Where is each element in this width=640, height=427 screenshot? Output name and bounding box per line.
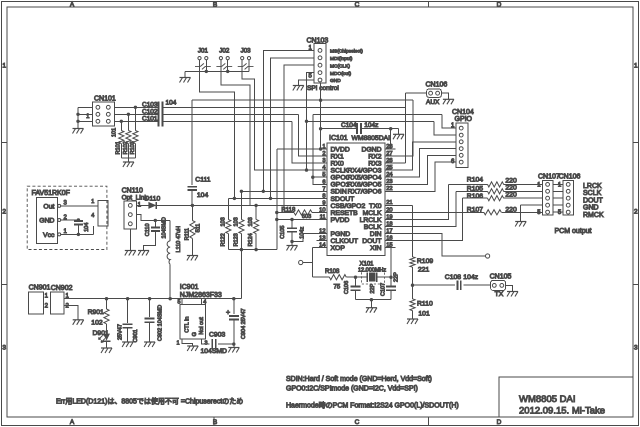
- svg-text:3: 3: [322, 158, 325, 164]
- svg-text:MS(Chipselect): MS(Chipselect): [330, 49, 363, 55]
- capacitor C105: [291, 220, 293, 229]
- svg-text:RX2: RX2: [368, 153, 381, 160]
- wire module Vcc: [61, 233, 94, 235]
- ground R111: [187, 255, 198, 257]
- svg-text:Vcc: Vcc: [43, 232, 55, 239]
- svg-text:28: 28: [386, 144, 392, 150]
- module FAV51RK0F dashed enclosure: [27, 186, 107, 249]
- svg-text:22: 22: [386, 186, 392, 192]
- svg-text:R123: R123: [233, 233, 239, 246]
- frame row ticks left: [2, 141, 8, 143]
- wire 5V input rail: [64, 298, 241, 300]
- ground CN105: [507, 291, 518, 293]
- svg-text:RX4/GPO3: RX4/GPO3: [348, 168, 382, 175]
- svg-text:RX0: RX0: [331, 161, 344, 168]
- svg-text:2: 2: [322, 151, 325, 157]
- svg-text:CTL in: CTL in: [184, 317, 190, 333]
- capacitor C904: [233, 299, 235, 314]
- svg-text:20: 20: [386, 207, 392, 213]
- svg-text:5: 5: [322, 172, 325, 178]
- svg-text:A: A: [70, 2, 75, 9]
- svg-text:25: 25: [386, 165, 392, 171]
- wire RX4/GPO3 pin25 to CN104 pin3: [396, 142, 457, 170]
- wire J01 to SDOUT bus: [200, 66, 235, 198]
- svg-text:3: 3: [634, 345, 638, 352]
- resistor R118: [277, 212, 294, 214]
- svg-text:C: C: [355, 2, 360, 9]
- wire RX6/GPO5 pin23 to CN104 pin5: [396, 155, 457, 184]
- svg-text:RX6/GPO5: RX6/GPO5: [348, 182, 382, 189]
- capacitor C106: [355, 277, 357, 286]
- wire 3.3V pull-up rail: [228, 249, 276, 251]
- ground C902: [144, 341, 155, 343]
- svg-text:R104: R104: [467, 177, 483, 184]
- svg-text:103: 103: [220, 217, 226, 226]
- svg-text:MCLK: MCLK: [363, 210, 382, 217]
- wire crystal ground rail: [356, 299, 392, 301]
- wire BCLK pin18 to R105: [396, 191, 456, 226]
- wire PVDD row: [277, 219, 317, 221]
- svg-text:15: 15: [386, 243, 392, 249]
- svg-text:C111: C111: [195, 177, 210, 184]
- svg-text:12.000MHz: 12.000MHz: [358, 267, 386, 273]
- svg-text:C107: C107: [380, 283, 386, 296]
- svg-text:C101: C101: [142, 116, 158, 123]
- svg-text:G: G: [192, 332, 198, 336]
- resistor R108: [313, 276, 330, 278]
- svg-text:25V47: 25V47: [118, 324, 124, 340]
- svg-text:LRCK: LRCK: [583, 183, 602, 190]
- ground IC901: [187, 345, 198, 347]
- svg-text:4: 4: [203, 299, 206, 305]
- wire CN103 pin4 to SCLK pin4: [307, 73, 317, 171]
- svg-text:7: 7: [322, 186, 325, 192]
- svg-text:21: 21: [386, 200, 392, 206]
- svg-text:FAV51RK0F: FAV51RK0F: [32, 190, 70, 197]
- ground CN103: [293, 85, 304, 87]
- svg-text:C: C: [355, 419, 360, 426]
- wire IC901 pin5 stub: [181, 299, 183, 305]
- svg-text:RESETB: RESETB: [331, 210, 359, 217]
- svg-text:D110: D110: [145, 196, 161, 203]
- svg-text:24: 24: [386, 172, 393, 178]
- svg-text:75: 75: [334, 285, 341, 291]
- svg-text:IC901: IC901: [180, 284, 199, 291]
- svg-text:104SMD: 104SMD: [161, 217, 167, 238]
- capacitor C902: [149, 299, 151, 317]
- wire CN110 pin2 row: [136, 215, 170, 221]
- module FAV51RK0F body: [36, 198, 57, 244]
- ground jumper rail: [180, 77, 191, 79]
- wire LRCLK pin19 to R104: [396, 184, 449, 219]
- wire CSB rail: [192, 204, 316, 206]
- svg-text:GND: GND: [330, 78, 341, 84]
- svg-text:6: 6: [322, 179, 325, 185]
- ground PCM output: [515, 221, 526, 223]
- svg-text:R124: R124: [248, 233, 254, 246]
- capacitor C110: [154, 220, 156, 226]
- svg-text:GPIO: GPIO: [455, 116, 473, 123]
- svg-text:19: 19: [386, 214, 392, 220]
- svg-text:220: 220: [505, 192, 517, 199]
- svg-text:MDI(input): MDI(input): [330, 56, 353, 62]
- svg-text:DOUT: DOUT: [362, 238, 381, 245]
- resistor R102: [127, 114, 129, 130]
- svg-text:Err用LED(D121)は、8805では使用不可 =Chi: Err用LED(D121)は、8805では使用不可 =Chipuserectのた…: [56, 397, 243, 406]
- svg-text:2: 2: [634, 209, 638, 216]
- svg-text:18: 18: [386, 221, 392, 227]
- svg-text:B: B: [213, 419, 217, 426]
- test point node XOP: [299, 260, 303, 264]
- svg-text:220: 220: [505, 178, 517, 185]
- wire DVDD riser to pin1: [320, 83, 322, 149]
- svg-text:8: 8: [322, 193, 325, 199]
- ground C903: [228, 347, 239, 349]
- svg-text:A: A: [70, 419, 75, 426]
- wire GPO bus rail to CN104 pin1: [313, 113, 442, 115]
- svg-text:RX1: RX1: [331, 153, 344, 160]
- svg-text:4: 4: [91, 213, 94, 219]
- svg-text:R109: R109: [417, 258, 433, 265]
- ground CN106 AUX: [443, 98, 454, 100]
- svg-text:C105: C105: [280, 226, 286, 239]
- svg-text:RX7/GPO6: RX7/GPO6: [348, 189, 382, 196]
- svg-text:C903: C903: [209, 332, 225, 339]
- svg-text:10: 10: [319, 207, 325, 213]
- svg-text:GND: GND: [583, 205, 599, 212]
- svg-text:16: 16: [386, 235, 392, 241]
- wire J03 to SCLK pin4: [242, 66, 316, 170]
- svg-text:101: 101: [112, 128, 118, 137]
- svg-text:R103: R103: [130, 141, 136, 154]
- svg-text:R122: R122: [220, 233, 226, 246]
- svg-text:J01: J01: [198, 47, 209, 54]
- svg-text:C104: C104: [341, 122, 357, 129]
- svg-text:R901: R901: [88, 309, 104, 316]
- resistor R111: [191, 205, 193, 220]
- svg-text:9: 9: [322, 200, 325, 206]
- svg-text:C102: C102: [142, 108, 158, 115]
- wire RX1 rail (C102 row): [162, 113, 298, 115]
- svg-text:103: 103: [233, 217, 239, 226]
- wire XOP to R108: [312, 263, 314, 278]
- svg-text:J02: J02: [219, 47, 230, 54]
- svg-text:Noi out: Noi out: [199, 317, 205, 335]
- wire DVDD rail: [192, 99, 413, 101]
- svg-text:PGND: PGND: [331, 231, 351, 238]
- svg-text:SPI control: SPI control: [307, 85, 339, 92]
- wire PGND pin12 to ground node: [292, 234, 317, 242]
- svg-text:R106: R106: [467, 193, 483, 200]
- svg-text:XOP: XOP: [331, 245, 346, 252]
- resistor R103: [134, 107, 136, 130]
- svg-text:RX3: RX3: [368, 161, 381, 168]
- svg-text:MDO(out): MDO(out): [330, 71, 351, 77]
- svg-text:D: D: [497, 2, 502, 9]
- wire RX7/GPO6 pin22 to CN104 pin6: [396, 162, 457, 191]
- svg-text:R110: R110: [417, 300, 433, 307]
- svg-text:R111: R111: [184, 228, 190, 240]
- svg-text:R102: R102: [123, 141, 129, 154]
- svg-text:D: D: [497, 419, 502, 426]
- resistor R109: [410, 257, 415, 267]
- svg-text:CN106: CN106: [559, 174, 581, 181]
- ground C104/DGND: [393, 133, 404, 135]
- svg-text:DGND: DGND: [361, 146, 381, 153]
- wire module GND: [61, 219, 79, 221]
- svg-text:C110: C110: [145, 223, 151, 236]
- svg-text:C901: C901: [133, 329, 139, 342]
- wire CN105 to ground: [506, 285, 513, 291]
- svg-text:511: 511: [196, 224, 202, 233]
- svg-text:2: 2: [2, 209, 6, 216]
- resistor R101: [120, 121, 122, 130]
- svg-text:104SMD: 104SMD: [201, 348, 228, 355]
- svg-text:CN106: CN106: [426, 81, 448, 88]
- svg-text:WM8805 DAI: WM8805 DAI: [519, 394, 576, 405]
- ground R110: [407, 318, 418, 320]
- svg-text:13: 13: [319, 236, 325, 242]
- wire SCLK bus rail to CN104 pin2: [307, 120, 435, 122]
- svg-text:Out: Out: [43, 203, 54, 210]
- wire GPO0 pin5 stub: [313, 176, 317, 178]
- svg-text:C904 25V47: C904 25V47: [241, 308, 247, 339]
- ground CN110: [125, 250, 136, 252]
- wire module Out: [61, 205, 98, 207]
- svg-text:11: 11: [320, 215, 326, 221]
- wire XIN pin15 to crystal: [390, 248, 392, 278]
- wire riser GPO1/GPO0: [313, 114, 317, 184]
- svg-text:1: 1: [91, 199, 94, 205]
- svg-text:220: 220: [505, 185, 517, 192]
- svg-text:1: 1: [634, 63, 638, 70]
- svg-text:GPO0:I2C/SPImode (GND=I2C, Vdd: GPO0:I2C/SPImode (GND=I2C, Vdd=SPI): [286, 386, 418, 393]
- svg-text:SDIN: SDIN: [331, 189, 347, 196]
- wire CN101 left leads: [78, 106, 93, 108]
- svg-text:R108: R108: [325, 269, 340, 275]
- svg-text:NJM2863F33: NJM2863F33: [180, 292, 222, 299]
- svg-text:1: 1: [322, 144, 325, 150]
- module output connector: [98, 200, 108, 226]
- svg-text:TX: TX: [495, 291, 504, 298]
- svg-text:103: 103: [248, 217, 254, 226]
- svg-text:22P: 22P: [393, 272, 399, 282]
- wire CN902 pin2 to ground: [64, 305, 78, 319]
- resistor R123: [240, 191, 242, 219]
- svg-text:101: 101: [418, 310, 430, 317]
- frame column ticks top: [213, 2, 215, 8]
- ground D901: [101, 347, 112, 349]
- svg-text:221: 221: [418, 266, 430, 273]
- svg-text:220: 220: [505, 206, 517, 213]
- wire CN104 pin2 feed: [434, 121, 456, 135]
- svg-text:LRCLK: LRCLK: [360, 217, 382, 224]
- resistor R110: [412, 285, 414, 299]
- svg-text:104: 104: [84, 223, 90, 232]
- wire TX0 pin21 to R109: [396, 204, 413, 206]
- svg-text:PCM output: PCM output: [555, 228, 592, 235]
- svg-text:C106: C106: [344, 281, 350, 294]
- svg-text:IC101: IC101: [329, 135, 348, 142]
- wire CN107 GND row to ground: [521, 204, 543, 206]
- svg-text:104: 104: [166, 99, 177, 106]
- wire RX3 riser / AUX tap: [404, 93, 406, 163]
- capacitor C107: [390, 277, 392, 286]
- svg-text:R118: R118: [281, 207, 296, 213]
- wire CN103 pin3 to RESETB net: [284, 65, 314, 212]
- svg-text:DVDD: DVDD: [331, 146, 350, 153]
- capacitor module 104: [77, 219, 79, 222]
- svg-text:PVDD: PVDD: [331, 217, 350, 224]
- wire RX5/GPO4 pin24 to CN104 pin4: [396, 149, 457, 178]
- wire J02 to CSB bus: [221, 66, 250, 205]
- svg-text:1: 1: [2, 63, 6, 70]
- test point node DIN: [486, 254, 490, 258]
- svg-text:WM8805DAI: WM8805DAI: [352, 135, 391, 142]
- svg-text:C108: C108: [445, 274, 461, 281]
- svg-text:+: +: [226, 309, 230, 316]
- wire CN106 to ground: [441, 93, 448, 99]
- ground C110: [138, 250, 149, 252]
- inductor L110: [169, 220, 171, 241]
- svg-text:5: 5: [177, 299, 180, 305]
- svg-text:CN105: CN105: [490, 274, 512, 281]
- ground C105: [287, 245, 298, 247]
- wire IC901 pin4 stub: [201, 299, 203, 305]
- frame column ticks bottom: [213, 417, 215, 426]
- wire CN107-CN106 row links: [553, 183, 563, 185]
- ground CN902: [73, 319, 84, 321]
- capacitor C901: [127, 299, 129, 323]
- wire CN101 right rows to caps: [115, 106, 158, 108]
- title block: [499, 377, 633, 417]
- svg-text:CN110: CN110: [122, 187, 143, 194]
- wire RX0 rail (C101 row): [162, 120, 291, 122]
- ground R101-R103: [123, 161, 134, 163]
- svg-text:B: B: [213, 2, 217, 9]
- wire RX2 riser from DVDD rail: [396, 100, 413, 156]
- wire D110 to CSB node: [156, 204, 192, 206]
- svg-text:104z: 104z: [299, 227, 305, 239]
- ground X101: [366, 307, 377, 309]
- svg-text:TX0: TX0: [369, 203, 382, 210]
- svg-text:14: 14: [319, 243, 326, 249]
- ground CN101: [73, 128, 84, 130]
- svg-text:26: 26: [386, 158, 392, 164]
- svg-text:XIN: XIN: [370, 245, 381, 252]
- wire DIN pin17 to test point: [396, 234, 486, 256]
- wire CN110 pin3 to ground: [129, 229, 131, 251]
- svg-text:DIN: DIN: [370, 231, 382, 238]
- wire CN104 pin1 feed: [442, 114, 456, 128]
- svg-text:AUX: AUX: [426, 99, 440, 106]
- resistor R122: [227, 198, 229, 219]
- svg-text:CSB/GPO2: CSB/GPO2: [331, 203, 366, 210]
- wire R101-R103 common to ground: [121, 157, 135, 159]
- svg-text:BCLK: BCLK: [364, 224, 382, 231]
- frame row ticks right: [633, 141, 639, 143]
- svg-text:DOUT: DOUT: [583, 197, 604, 204]
- svg-text:23: 23: [386, 179, 392, 185]
- wire jumper common rail: [185, 70, 249, 72]
- wire DGND pin28 to ground: [390, 129, 392, 149]
- svg-text:SDOUT: SDOUT: [331, 196, 355, 203]
- wire SDIN rail: [241, 190, 316, 192]
- svg-text:CN901: CN901: [29, 285, 51, 292]
- wire DOUT pin16 to R106: [396, 198, 463, 241]
- wire RX3 rail (C103 row): [162, 106, 405, 108]
- svg-text:17: 17: [386, 228, 392, 234]
- svg-text:L110 47uH: L110 47uH: [176, 226, 182, 253]
- wire C903 to ground: [233, 344, 235, 347]
- ground C901: [122, 341, 133, 343]
- svg-text:102: 102: [91, 320, 103, 327]
- svg-text:CN902: CN902: [51, 285, 73, 292]
- svg-text:104: 104: [197, 192, 209, 199]
- svg-text:27: 27: [386, 151, 392, 157]
- svg-text:CLKOUT: CLKOUT: [331, 238, 359, 245]
- svg-text:104z: 104z: [364, 122, 378, 129]
- wire C105 to ground: [291, 242, 293, 246]
- svg-text:RX5/GPO4: RX5/GPO4: [348, 175, 382, 182]
- svg-text:R101: R101: [116, 141, 122, 154]
- svg-text:GND: GND: [39, 218, 54, 225]
- svg-text:CN107: CN107: [538, 174, 560, 181]
- capacitor C101-C103 shared plates: [157, 102, 159, 127]
- svg-text:104z: 104z: [463, 274, 478, 281]
- svg-text:3: 3: [2, 345, 6, 352]
- svg-text:12: 12: [319, 229, 325, 235]
- wire CN103 pin1 to SDIN rail: [263, 50, 314, 191]
- wire CN103 pin5 to ground: [298, 80, 314, 86]
- svg-text:1: 1: [176, 341, 179, 347]
- wire SDOUT rail: [228, 197, 316, 199]
- svg-text:Haermode時のPCM Format:I2S24 GPO: Haermode時のPCM Format:I2S24 GPO0(L)/SDOUT…: [286, 402, 459, 410]
- svg-text:C103: C103: [142, 101, 158, 108]
- svg-text:MC(CLK): MC(CLK): [330, 63, 350, 69]
- svg-text:SCLK: SCLK: [583, 190, 602, 197]
- wire XOP pin14 branch: [303, 248, 313, 263]
- wire IC901 GND pin to ground: [182, 339, 193, 346]
- svg-text:22P: 22P: [370, 283, 376, 293]
- wire PVDD riser / 3.3V to DVDD tie: [276, 149, 278, 250]
- wire CN103 pin2 to SDOUT rail: [271, 58, 314, 199]
- resistor R124: [255, 205, 257, 219]
- svg-text:SDIN:Hard / Soft mode (GND=Her: SDIN:Hard / Soft mode (GND=Herd, Vdd=Sof…: [286, 376, 432, 383]
- svg-text:2012.09.15. Mi-Take: 2012.09.15. Mi-Take: [519, 406, 605, 417]
- svg-text:RMCK: RMCK: [583, 212, 604, 219]
- svg-text:C902 104SMD: C902 104SMD: [157, 305, 163, 341]
- svg-text:J03: J03: [241, 47, 252, 54]
- resistor R901: [106, 299, 108, 309]
- svg-text:SCLK: SCLK: [331, 168, 349, 175]
